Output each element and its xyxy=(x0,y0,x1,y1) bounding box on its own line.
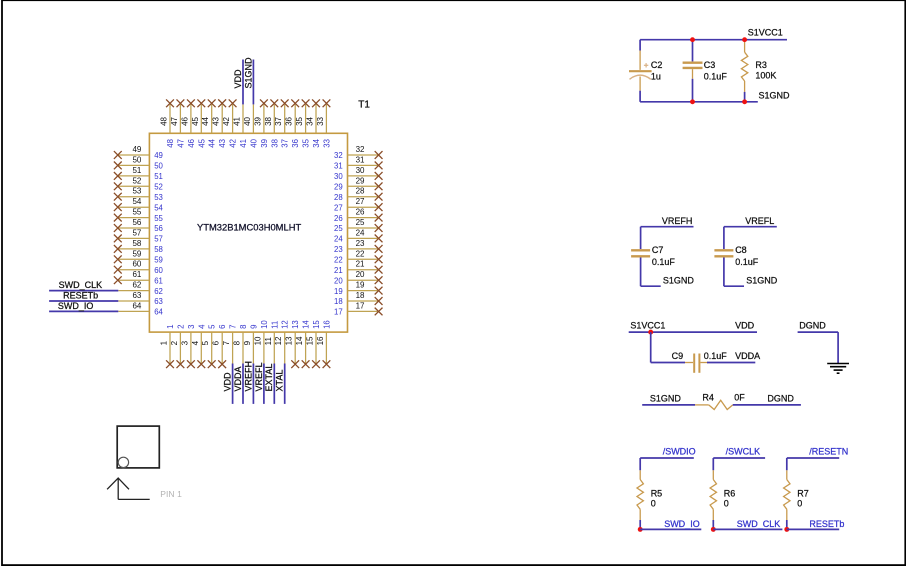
svg-text:33: 33 xyxy=(322,139,331,148)
svg-text:4: 4 xyxy=(191,340,200,345)
svg-text:57: 57 xyxy=(154,235,163,244)
svg-text:C3: C3 xyxy=(704,60,716,70)
svg-text:54: 54 xyxy=(154,203,163,212)
svg-text:DGND: DGND xyxy=(767,394,794,404)
svg-text:PIN 1: PIN 1 xyxy=(160,489,182,499)
svg-text:43: 43 xyxy=(212,116,221,125)
svg-text:32: 32 xyxy=(356,145,365,154)
svg-text:36: 36 xyxy=(291,139,300,148)
svg-text:14: 14 xyxy=(302,320,311,329)
svg-text:52: 52 xyxy=(132,176,141,185)
svg-text:22: 22 xyxy=(334,256,343,265)
svg-text:31: 31 xyxy=(334,162,343,171)
svg-text:VREFL: VREFL xyxy=(254,362,264,391)
svg-text:S1GND: S1GND xyxy=(244,57,254,89)
svg-text:44: 44 xyxy=(208,138,217,147)
svg-text:0F: 0F xyxy=(734,393,745,403)
svg-text:VREFL: VREFL xyxy=(745,216,774,226)
svg-text:R6: R6 xyxy=(724,489,736,499)
svg-text:RESETb: RESETb xyxy=(63,290,98,300)
svg-text:40: 40 xyxy=(249,138,258,147)
svg-text:S1VCC1: S1VCC1 xyxy=(748,28,783,38)
svg-text:46: 46 xyxy=(187,139,196,148)
svg-text:59: 59 xyxy=(132,249,141,258)
svg-text:32: 32 xyxy=(334,151,343,160)
svg-text:48: 48 xyxy=(160,116,169,125)
svg-text:100K: 100K xyxy=(755,71,776,81)
svg-text:C7: C7 xyxy=(652,245,664,255)
svg-text:11: 11 xyxy=(264,337,273,346)
svg-text:23: 23 xyxy=(356,239,365,248)
svg-text:3: 3 xyxy=(180,340,189,345)
svg-text:37: 37 xyxy=(274,116,283,125)
svg-text:20: 20 xyxy=(334,276,343,285)
svg-text:EXTAL: EXTAL xyxy=(264,364,274,392)
svg-text:38: 38 xyxy=(270,139,279,148)
svg-text:C2: C2 xyxy=(651,60,663,70)
svg-text:54: 54 xyxy=(132,197,141,206)
svg-text:S1GND: S1GND xyxy=(759,91,791,101)
svg-text:6: 6 xyxy=(218,325,227,329)
svg-text:34: 34 xyxy=(306,116,315,125)
svg-text:1: 1 xyxy=(166,325,175,329)
svg-text:10: 10 xyxy=(253,336,262,345)
svg-text:17: 17 xyxy=(334,308,343,317)
svg-text:51: 51 xyxy=(154,172,163,181)
svg-text:C8: C8 xyxy=(735,245,747,255)
svg-text:59: 59 xyxy=(154,256,163,265)
svg-text:42: 42 xyxy=(229,139,238,148)
svg-text:21: 21 xyxy=(334,266,343,275)
svg-text:19: 19 xyxy=(334,287,343,296)
svg-text:45: 45 xyxy=(191,116,200,125)
svg-text:51: 51 xyxy=(132,166,141,175)
svg-text:40: 40 xyxy=(243,116,252,125)
svg-text:27: 27 xyxy=(334,203,343,212)
svg-text:8: 8 xyxy=(233,340,242,345)
svg-text:25: 25 xyxy=(356,218,365,227)
svg-text:64: 64 xyxy=(154,308,163,317)
svg-text:18: 18 xyxy=(356,291,365,300)
svg-text:15: 15 xyxy=(312,320,321,329)
svg-text:37: 37 xyxy=(281,139,290,148)
svg-text:17: 17 xyxy=(356,301,365,310)
svg-text:47: 47 xyxy=(176,139,185,148)
svg-text:VDD: VDD xyxy=(735,321,755,331)
svg-text:64: 64 xyxy=(132,301,141,310)
svg-text:62: 62 xyxy=(132,281,141,290)
svg-text:60: 60 xyxy=(154,266,163,275)
svg-text:16: 16 xyxy=(322,320,331,329)
svg-text:VREFH: VREFH xyxy=(243,361,253,392)
svg-text:44: 44 xyxy=(201,116,210,125)
svg-text:0.1uF: 0.1uF xyxy=(704,71,728,81)
svg-text:33: 33 xyxy=(316,116,325,125)
svg-text:C9: C9 xyxy=(672,351,684,361)
svg-text:VREFH: VREFH xyxy=(662,216,693,226)
svg-text:0.1uF: 0.1uF xyxy=(735,257,759,267)
svg-text:5: 5 xyxy=(208,324,217,329)
svg-text:61: 61 xyxy=(132,270,141,279)
svg-text:50: 50 xyxy=(132,155,141,164)
svg-text:53: 53 xyxy=(154,193,163,202)
svg-text:30: 30 xyxy=(356,166,365,175)
svg-text:1u: 1u xyxy=(651,71,661,81)
svg-text:63: 63 xyxy=(154,297,163,306)
svg-text:49: 49 xyxy=(154,151,163,160)
svg-text:47: 47 xyxy=(170,116,179,125)
svg-text:58: 58 xyxy=(132,239,141,248)
svg-text:2: 2 xyxy=(176,325,185,329)
svg-text:39: 39 xyxy=(253,116,262,125)
svg-text:T1: T1 xyxy=(358,100,370,111)
svg-text:0: 0 xyxy=(651,498,656,508)
svg-text:16: 16 xyxy=(316,336,325,345)
svg-text:R4: R4 xyxy=(702,393,714,403)
svg-text:20: 20 xyxy=(356,270,365,279)
svg-text:S1GND: S1GND xyxy=(746,275,778,285)
svg-text:29: 29 xyxy=(334,183,343,192)
svg-text:63: 63 xyxy=(132,291,141,300)
svg-text:13: 13 xyxy=(291,320,300,329)
svg-text:/RESETN: /RESETN xyxy=(809,447,848,457)
svg-text:28: 28 xyxy=(334,193,343,202)
svg-text:34: 34 xyxy=(312,138,321,147)
svg-text:58: 58 xyxy=(154,245,163,254)
svg-text:/SWCLK: /SWCLK xyxy=(726,447,761,457)
svg-text:S1GND: S1GND xyxy=(663,275,695,285)
svg-text:S1GND: S1GND xyxy=(650,394,682,404)
svg-text:S1VCC1: S1VCC1 xyxy=(630,321,665,331)
svg-text:R5: R5 xyxy=(651,489,663,499)
svg-text:24: 24 xyxy=(334,235,343,244)
svg-text:11: 11 xyxy=(270,321,279,329)
svg-text:12: 12 xyxy=(274,336,283,345)
svg-text:53: 53 xyxy=(132,187,141,196)
svg-text:7: 7 xyxy=(222,340,231,345)
svg-text:57: 57 xyxy=(132,228,141,237)
svg-text:61: 61 xyxy=(154,276,163,285)
svg-text:19: 19 xyxy=(356,281,365,290)
svg-text:9: 9 xyxy=(243,340,252,345)
svg-text:23: 23 xyxy=(334,245,343,254)
svg-text:43: 43 xyxy=(218,139,227,148)
svg-text:DGND: DGND xyxy=(799,321,826,331)
svg-text:5: 5 xyxy=(201,340,210,345)
svg-text:55: 55 xyxy=(132,208,141,217)
svg-text:VDD: VDD xyxy=(223,372,233,392)
svg-text:9: 9 xyxy=(249,325,258,329)
svg-text:45: 45 xyxy=(197,138,206,147)
svg-text:25: 25 xyxy=(334,224,343,233)
svg-text:56: 56 xyxy=(132,218,141,227)
svg-text:27: 27 xyxy=(356,197,365,206)
svg-text:10: 10 xyxy=(260,320,269,329)
svg-text:15: 15 xyxy=(306,336,315,345)
svg-text:0.1uF: 0.1uF xyxy=(704,351,728,361)
svg-text:8: 8 xyxy=(239,325,248,329)
svg-text:4: 4 xyxy=(197,324,206,329)
svg-text:2: 2 xyxy=(170,340,179,345)
svg-text:1: 1 xyxy=(160,340,169,345)
svg-text:41: 41 xyxy=(233,116,242,125)
svg-text:26: 26 xyxy=(356,208,365,217)
svg-text:YTM32B1MC03H0MLHT: YTM32B1MC03H0MLHT xyxy=(197,222,301,233)
svg-text:46: 46 xyxy=(180,116,189,125)
svg-text:3: 3 xyxy=(187,325,196,329)
svg-text:60: 60 xyxy=(132,260,141,269)
svg-text:52: 52 xyxy=(154,183,163,192)
svg-text:50: 50 xyxy=(154,162,163,171)
svg-text:35: 35 xyxy=(302,138,311,147)
svg-text:0.1uF: 0.1uF xyxy=(652,257,676,267)
svg-text:/SWDIO: /SWDIO xyxy=(663,447,696,457)
svg-text:VDD: VDD xyxy=(233,69,243,89)
svg-text:6: 6 xyxy=(212,340,221,345)
svg-text:41: 41 xyxy=(239,139,248,148)
svg-text:22: 22 xyxy=(356,249,365,258)
svg-text:24: 24 xyxy=(356,228,365,237)
svg-text:39: 39 xyxy=(260,139,269,148)
svg-text:56: 56 xyxy=(154,224,163,233)
svg-text:31: 31 xyxy=(356,155,365,164)
svg-text:35: 35 xyxy=(295,116,304,125)
svg-text:13: 13 xyxy=(285,336,294,345)
svg-text:38: 38 xyxy=(264,116,273,125)
svg-text:14: 14 xyxy=(295,336,304,345)
svg-text:SWD_CLK: SWD_CLK xyxy=(59,280,103,290)
svg-text:49: 49 xyxy=(132,145,141,154)
svg-text:R3: R3 xyxy=(755,60,767,70)
svg-text:SWD_IO: SWD_IO xyxy=(664,519,700,529)
svg-text:21: 21 xyxy=(356,260,365,269)
svg-text:VDDA: VDDA xyxy=(233,366,243,391)
svg-text:55: 55 xyxy=(154,214,163,223)
svg-text:48: 48 xyxy=(166,139,175,148)
svg-text:36: 36 xyxy=(285,116,294,125)
svg-text:30: 30 xyxy=(334,172,343,181)
svg-text:18: 18 xyxy=(334,297,343,306)
svg-text:0: 0 xyxy=(724,498,729,508)
svg-text:26: 26 xyxy=(334,214,343,223)
svg-text:RESETb: RESETb xyxy=(809,519,844,529)
svg-text:VDDA: VDDA xyxy=(735,351,760,361)
svg-text:0: 0 xyxy=(797,498,802,508)
svg-text:42: 42 xyxy=(222,116,231,125)
svg-text:R7: R7 xyxy=(797,489,809,499)
svg-text:28: 28 xyxy=(356,187,365,196)
svg-text:12: 12 xyxy=(281,320,290,329)
svg-text:XTAL: XTAL xyxy=(275,370,285,392)
svg-text:7: 7 xyxy=(229,325,238,329)
svg-text:SWD_IO: SWD_IO xyxy=(58,301,94,311)
svg-text:29: 29 xyxy=(356,176,365,185)
svg-text:62: 62 xyxy=(154,287,163,296)
svg-text:SWD_CLK: SWD_CLK xyxy=(737,519,781,529)
